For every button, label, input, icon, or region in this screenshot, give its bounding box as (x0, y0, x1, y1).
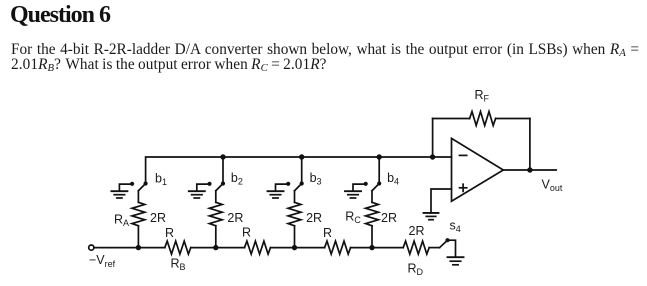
wire feedback left riser (432, 119, 434, 158)
svg-text:RA: RA (114, 212, 129, 228)
svg-text:2R: 2R (381, 211, 397, 225)
wire RD to switch s4 (429, 247, 439, 249)
wire branch4 to bottom rail (371, 226, 373, 248)
svg-text:RF: RF (475, 88, 490, 104)
wire + input (431, 189, 452, 213)
wire branch1 to bottom rail (137, 226, 139, 248)
ground at b2 (189, 184, 210, 198)
svg-text:2R: 2R (150, 211, 166, 225)
switch b3 (286, 181, 304, 202)
node feedback junction (430, 154, 435, 159)
resistor RD 2R (403, 241, 429, 254)
wire branch3 to bottom rail (294, 226, 296, 248)
wire branch2 to bottom rail (215, 226, 217, 248)
node output junction (527, 167, 532, 172)
node bottom junction 4 (369, 245, 374, 250)
resistor R2 (245, 241, 271, 254)
svg-text:b4: b4 (387, 171, 399, 187)
svg-text:b1: b1 (155, 172, 167, 188)
svg-text:2R: 2R (306, 211, 322, 225)
svg-text:R: R (242, 226, 251, 240)
svg-text:s4: s4 (450, 219, 461, 235)
svg-text:R: R (165, 226, 174, 240)
wire top summing rail (146, 157, 452, 184)
svg-text:2R: 2R (227, 211, 243, 225)
switch b2 (207, 181, 225, 202)
wire b4 contact drop (378, 157, 380, 184)
node bottom junction 3 (292, 245, 297, 250)
node top rail junction b2 (220, 154, 225, 159)
wire bottom rail segment 4 (351, 247, 404, 249)
node bottom junction 2 (213, 245, 218, 250)
wire feedback top right (496, 118, 530, 120)
resistor R3 (325, 241, 351, 254)
resistor 2R branch1 (132, 202, 145, 226)
op-amp U1 (452, 138, 504, 201)
svg-text:−Vref: −Vref (89, 253, 116, 269)
ground at b4 (345, 184, 366, 198)
svg-text:RB: RB (171, 256, 186, 272)
resistor RF (470, 112, 496, 126)
svg-text:b3: b3 (310, 171, 322, 187)
terminal -Vref (89, 245, 94, 250)
wire feedback top left (433, 118, 470, 120)
svg-text:b2: b2 (231, 171, 243, 187)
node top rail junction b3 (299, 154, 304, 159)
resistor 2R branch3 (288, 202, 301, 226)
wire bottom rail segment 1 (94, 247, 165, 249)
switch b1 (130, 181, 148, 202)
ground at b3 (268, 184, 289, 198)
wire b3 contact drop (301, 157, 303, 184)
wire bottom rail segment 2 (191, 247, 245, 249)
resistor 2R branch4 (366, 202, 379, 226)
switch b4 (364, 181, 382, 202)
wire output (503, 169, 556, 171)
svg-text:2R: 2R (409, 224, 425, 238)
switch s4 (440, 238, 456, 257)
ground at b1 (111, 184, 132, 198)
node top rail junction b4 (377, 154, 382, 159)
svg-text:RC: RC (345, 210, 361, 226)
node bottom junction 1 (136, 245, 141, 250)
resistor 2R branch2 (209, 202, 222, 226)
svg-text:RD: RD (408, 261, 424, 277)
wire b2 contact drop (222, 157, 224, 184)
svg-text:R: R (323, 226, 332, 240)
ground at + input (424, 213, 439, 220)
resistor R1 (165, 241, 191, 254)
ground at s4 (448, 257, 464, 265)
wire feedback right riser (529, 119, 531, 171)
wire bottom rail segment 3 (271, 247, 325, 249)
svg-text:Vout: Vout (542, 177, 563, 193)
